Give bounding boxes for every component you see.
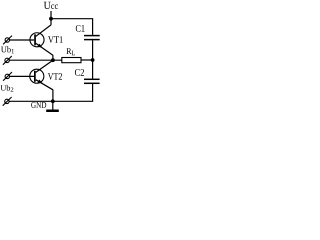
wire Ucc vertical (50, 11, 52, 25)
label VT2 (48, 73, 62, 80)
transistor VT2 (30, 60, 53, 90)
terminal input 2 (3, 56, 12, 65)
wire input1 to VT1 base (10, 39, 35, 41)
wire input4 to ground rail (9, 100, 53, 102)
wire C2 to bottom rail (53, 84, 93, 101)
label Ub1 (1, 46, 14, 53)
wire RL to right junction (81, 59, 93, 61)
wire VT1 emitter to output node (52, 55, 54, 60)
wire output node to RL (9, 59, 61, 61)
terminal input 1 (3, 36, 12, 45)
capacitor C1 (84, 36, 100, 40)
power label Ucc (44, 2, 58, 9)
capacitor C2 label (75, 69, 84, 76)
transistor VT1 (30, 25, 53, 55)
capacitor C2 (84, 79, 100, 83)
label VT1 (48, 36, 63, 43)
wire C1 to junction (92, 40, 94, 60)
capacitor C1 label (76, 25, 85, 32)
label Ub2 (1, 85, 14, 92)
label GND (31, 102, 46, 108)
junction ground node (51, 99, 55, 103)
wire top rail to C1 (51, 19, 93, 35)
wire VT2 emitter to ground rail (52, 90, 54, 102)
junction right output (91, 58, 95, 62)
wire junction to C2 (92, 60, 94, 79)
junction output node (51, 58, 55, 62)
ground (46, 101, 59, 112)
junction Ucc rail (49, 17, 53, 21)
terminal input 4 (3, 97, 12, 106)
wire input3 to VT2 base (10, 75, 35, 77)
resistor RL label (66, 48, 75, 55)
terminal input 3 (3, 72, 12, 81)
resistor RL (62, 58, 81, 63)
